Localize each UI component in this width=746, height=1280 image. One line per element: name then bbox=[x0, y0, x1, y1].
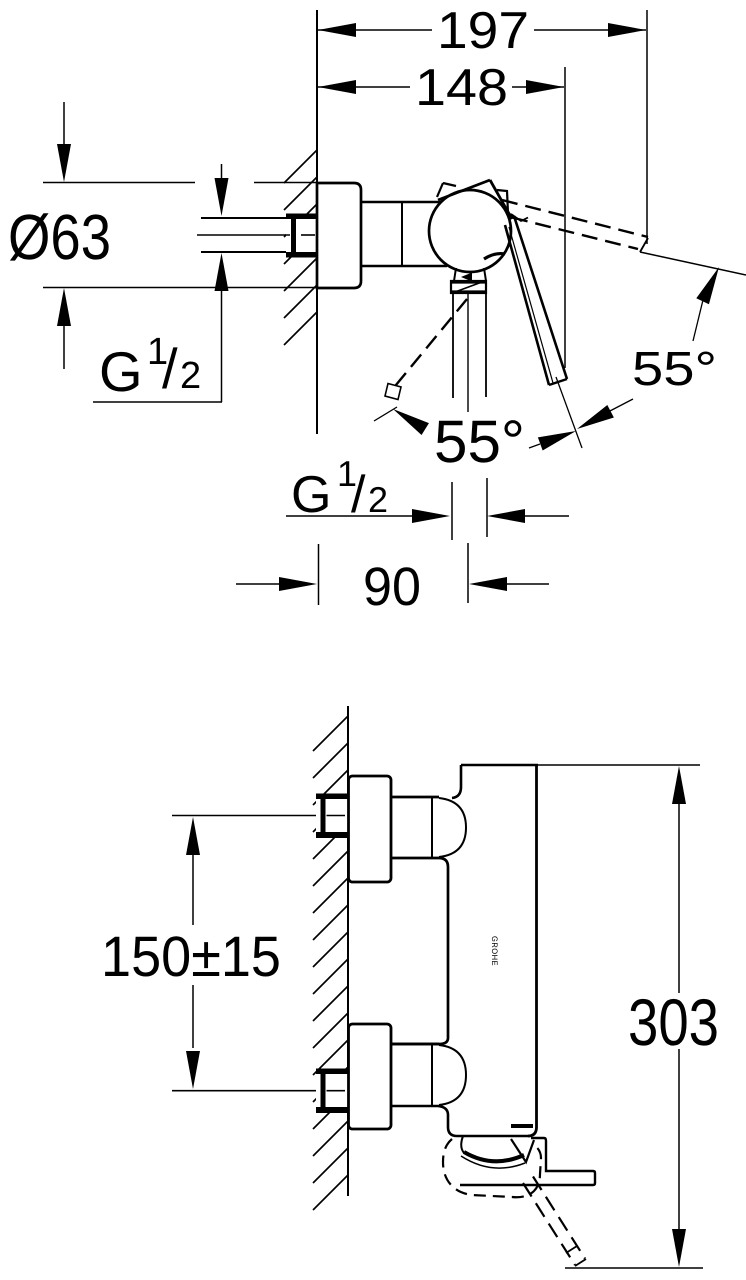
svg-text:303: 303 bbox=[628, 985, 719, 1059]
svg-text:90: 90 bbox=[363, 557, 421, 617]
svg-text:55°: 55° bbox=[434, 408, 525, 475]
svg-text:2: 2 bbox=[180, 355, 201, 397]
svg-text:G: G bbox=[99, 340, 143, 403]
svg-text:197: 197 bbox=[437, 2, 529, 60]
svg-text:2: 2 bbox=[368, 479, 388, 520]
svg-text:55°: 55° bbox=[632, 343, 717, 396]
svg-text:Ø63: Ø63 bbox=[8, 201, 111, 273]
svg-text:150±15: 150±15 bbox=[101, 925, 281, 989]
svg-text:148: 148 bbox=[415, 59, 508, 117]
svg-text:/: / bbox=[162, 337, 178, 400]
svg-text:GROHE: GROHE bbox=[490, 936, 499, 966]
